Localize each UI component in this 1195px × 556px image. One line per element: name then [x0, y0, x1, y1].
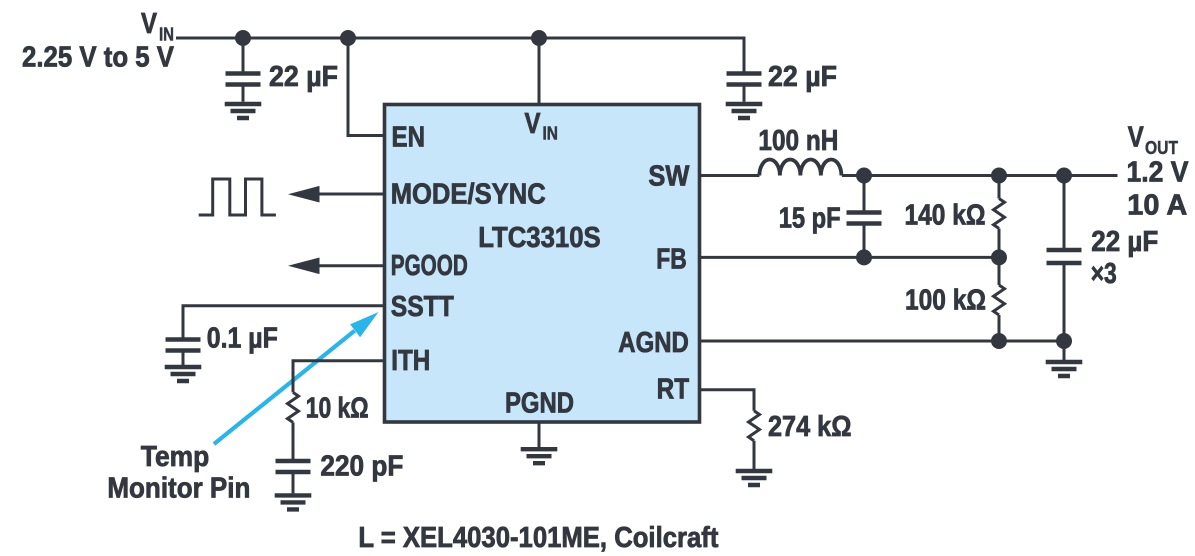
- svg-text:274 kΩ: 274 kΩ: [768, 411, 852, 443]
- svg-text:2.25 V to 5 V: 2.25 V to 5 V: [22, 41, 175, 73]
- svg-text:EN: EN: [392, 122, 426, 154]
- svg-text:V: V: [525, 108, 542, 140]
- svg-text:V: V: [1128, 122, 1145, 154]
- svg-text:SW: SW: [648, 160, 690, 192]
- svg-text:LTC3310S: LTC3310S: [478, 222, 601, 254]
- svg-text:0.1 µF: 0.1 µF: [207, 322, 278, 354]
- svg-text:AGND: AGND: [618, 327, 689, 359]
- svg-text:Monitor Pin: Monitor Pin: [107, 473, 250, 505]
- svg-text:PGOOD: PGOOD: [391, 250, 468, 282]
- svg-text:Temp: Temp: [141, 441, 210, 473]
- svg-text:OUT: OUT: [1145, 137, 1179, 158]
- svg-text:L = XEL4030-101ME, Coilcraft: L = XEL4030-101ME, Coilcraft: [358, 522, 718, 554]
- svg-text:PGND: PGND: [505, 388, 574, 420]
- svg-text:10 kΩ: 10 kΩ: [306, 392, 369, 424]
- svg-text:MODE/SYNC: MODE/SYNC: [391, 179, 546, 211]
- svg-text:IN: IN: [543, 123, 559, 144]
- svg-text:SSTT: SSTT: [391, 291, 454, 323]
- svg-text:V: V: [141, 8, 158, 40]
- svg-text:220 pF: 220 pF: [320, 451, 403, 483]
- svg-text:FB: FB: [656, 244, 687, 276]
- svg-text:140 kΩ: 140 kΩ: [905, 200, 986, 232]
- svg-text:22 µF: 22 µF: [768, 61, 837, 93]
- svg-text:×3: ×3: [1091, 258, 1117, 290]
- svg-text:22 µF: 22 µF: [269, 61, 338, 93]
- svg-text:ITH: ITH: [391, 345, 430, 377]
- svg-text:100 kΩ: 100 kΩ: [905, 284, 986, 316]
- svg-text:22 µF: 22 µF: [1091, 226, 1158, 258]
- svg-text:RT: RT: [657, 373, 690, 405]
- svg-text:15 pF: 15 pF: [779, 203, 841, 235]
- svg-text:10 A: 10 A: [1127, 190, 1187, 222]
- svg-text:1.2 V: 1.2 V: [1127, 157, 1190, 189]
- svg-text:100 nH: 100 nH: [758, 125, 838, 157]
